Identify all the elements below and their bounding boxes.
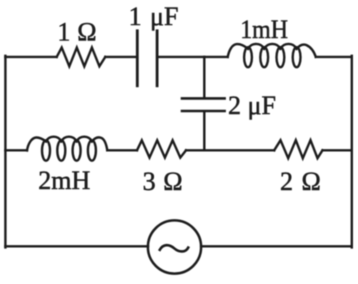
wire C 2uF down to node B — [203, 112, 205, 150]
wire C 1uF to L 1mH through node A — [159, 56, 228, 58]
wire L 1mH to right edge — [316, 56, 352, 58]
svg-text:1mH: 1mH — [240, 15, 288, 44]
AC source circle — [148, 220, 201, 273]
wire R 2ohm to right edge — [323, 149, 352, 151]
inductor 2mH — [27, 137, 107, 161]
resistor 1 Ohm — [57, 48, 106, 67]
capacitor C 2uF top plate — [182, 97, 225, 100]
wire right edge — [351, 56, 353, 248]
wire node A down to C 2uF — [203, 57, 205, 97]
capacitor C 1uF right plate — [156, 31, 159, 86]
resistor 2 Ohm — [274, 140, 322, 158]
wire R 1ohm to C 1uF — [105, 56, 136, 58]
capacitor C 1uF left plate — [136, 31, 139, 86]
wire bottom-right (source to right edge) — [201, 245, 352, 247]
wire top-left (left edge to R 1ohm) — [5, 56, 56, 58]
svg-text:2μF: 2μF — [228, 91, 276, 120]
svg-text:2mH: 2mH — [38, 166, 90, 195]
wire node B (R 3ohm to R 2ohm through junction with C 2uF branch) — [186, 149, 274, 151]
capacitor C 2uF bottom plate — [182, 110, 225, 113]
svg-text:3Ω: 3Ω — [143, 167, 183, 196]
inductor 1mH — [228, 44, 316, 67]
svg-text:1μF: 1μF — [129, 2, 179, 31]
wire middle-left (left edge to L 2mH) — [5, 149, 27, 151]
wire L 2mH to R 3ohm — [107, 149, 137, 151]
svg-text:1Ω: 1Ω — [57, 18, 96, 47]
AC source sine symbol — [160, 245, 188, 251]
svg-text:2Ω: 2Ω — [280, 167, 321, 196]
wire bottom-left (left edge to source) — [5, 245, 148, 247]
wire left edge — [4, 56, 6, 248]
resistor 3 Ohm — [137, 140, 186, 157]
